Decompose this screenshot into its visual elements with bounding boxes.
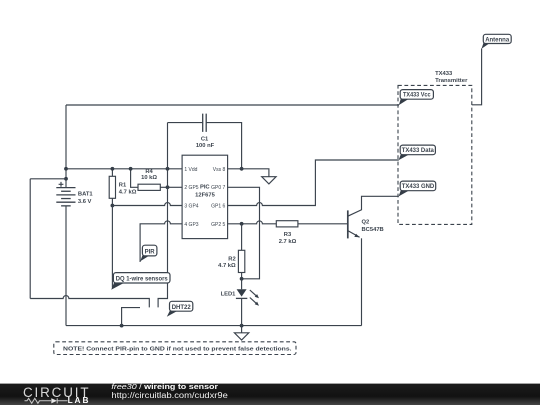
svg-text:C1: C1 <box>201 136 209 142</box>
wire R1 bottom down to DQ sensors <box>111 206 113 288</box>
ground Vss <box>262 177 276 184</box>
capacitor C1 <box>168 114 242 169</box>
svg-text:Vss 8: Vss 8 <box>213 167 226 173</box>
resistor R3 <box>276 221 348 245</box>
svg-text:Antenna: Antenna <box>485 37 510 43</box>
node R1 top junction <box>111 167 115 171</box>
label TX433 Transmitter <box>435 71 468 84</box>
svg-text:4.7 kΩ: 4.7 kΩ <box>119 189 137 195</box>
svg-text:NOTE! Connect PIR-pin to GND i: NOTE! Connect PIR-pin to GND if not used… <box>63 346 292 352</box>
footer bar <box>0 384 540 405</box>
svg-text:BAT1: BAT1 <box>78 191 93 197</box>
logo CIRCUIT LAB <box>23 385 90 405</box>
svg-text:TX433 GND: TX433 GND <box>402 184 435 190</box>
svg-text:2 GP5: 2 GP5 <box>184 185 198 191</box>
svg-text:LED1: LED1 <box>221 292 237 298</box>
svg-text:PIC: PIC <box>200 185 210 191</box>
resistor R1 <box>109 169 136 206</box>
svg-text:3.6 V: 3.6 V <box>78 199 92 205</box>
callout TX433 Vcc <box>399 90 434 106</box>
callout Antenna <box>482 34 512 49</box>
svg-text:PIR: PIR <box>145 250 156 256</box>
ground below LED <box>234 326 248 340</box>
svg-text:GP1 6: GP1 6 <box>211 204 225 210</box>
svg-text:2.7 kΩ: 2.7 kΩ <box>279 239 297 245</box>
node LED anode junction <box>240 277 244 281</box>
wire GP3 pin 4 with hop <box>140 221 182 262</box>
node R2 top junction <box>240 222 244 226</box>
svg-text:DQ 1-wire sensors: DQ 1-wire sensors <box>116 277 169 283</box>
svg-text:R2: R2 <box>228 256 235 262</box>
dashed TX433 transmitter box <box>398 85 472 224</box>
node ground rail DHT22 junction <box>120 324 124 328</box>
wire C1 left vertical down to 1-wire stub <box>158 123 167 308</box>
LED LED1 <box>221 279 259 326</box>
wire DHT22 ground stub line C <box>122 308 140 326</box>
wire GP5 pin 2 <box>168 186 183 188</box>
svg-text:GP2 5: GP2 5 <box>211 222 225 228</box>
node battery plus left branch junction <box>64 177 68 181</box>
wire battery plus to left branch <box>30 178 66 180</box>
wire sensor supply line A with hop over battery wire <box>30 296 149 308</box>
svg-text:TX433 Data: TX433 Data <box>402 148 435 154</box>
svg-text:R4: R4 <box>145 169 153 175</box>
wire bottom ground rail <box>66 325 362 327</box>
battery BAT1 <box>56 182 93 206</box>
node R1 bottom GP4 junction <box>111 204 115 208</box>
svg-text:100 nF: 100 nF <box>196 143 215 149</box>
wire top Vcc rail <box>66 104 399 106</box>
wire battery minus down to ground rail <box>65 206 67 326</box>
svg-text:BC547B: BC547B <box>362 227 384 233</box>
wire left vertical battery to rails <box>65 105 67 188</box>
wire GP0 pin 7 to LED node <box>228 187 260 278</box>
svg-text:Q2: Q2 <box>362 220 370 226</box>
transistor Q2 <box>348 196 399 325</box>
node C1 right Vss junction <box>240 167 244 171</box>
callout TX433 GND <box>399 181 436 196</box>
callout TX433 Data <box>399 145 436 160</box>
IC U1 PIC 12F675 <box>182 155 228 238</box>
svg-text:12F675: 12F675 <box>195 193 215 199</box>
svg-text:R1: R1 <box>119 183 127 189</box>
wire left outer branch down <box>29 179 31 299</box>
node ground rail LED junction <box>240 324 244 328</box>
svg-text:Transmitter: Transmitter <box>435 78 468 84</box>
wire GP4 pin 3 with hop <box>112 203 182 206</box>
svg-text:TX433: TX433 <box>435 71 453 77</box>
wire GP1 pin 6 to TX data with hop <box>228 160 399 206</box>
wire antenna <box>472 49 482 105</box>
node R4 left junction <box>129 167 133 171</box>
callout DHT22 <box>167 301 193 317</box>
wire Vdd rail to pin 1 <box>66 168 182 170</box>
callout PIR <box>140 245 157 261</box>
resistor R4 <box>131 169 168 191</box>
svg-text:R3: R3 <box>284 232 292 238</box>
svg-text:http://circuitlab.com/cudxr9e: http://circuitlab.com/cudxr9e <box>111 391 228 400</box>
svg-text:1 Vdd: 1 Vdd <box>184 167 197 173</box>
svg-text:4 GP3: 4 GP3 <box>184 222 198 228</box>
svg-text:DHT22: DHT22 <box>172 305 192 311</box>
svg-text:10 kΩ: 10 kΩ <box>141 175 157 181</box>
node C1 left rail junction <box>166 167 170 171</box>
wire GP2 pin 5 with hop <box>228 221 277 224</box>
callout DQ 1-wire sensors <box>111 273 170 290</box>
node battery plus rail junction <box>64 167 68 171</box>
footer title text <box>111 382 228 400</box>
svg-text:4.7 kΩ: 4.7 kΩ <box>218 263 236 269</box>
svg-text:TX433 Vcc: TX433 Vcc <box>403 93 431 99</box>
resistor R2 <box>218 224 245 279</box>
svg-text:GP0 7: GP0 7 <box>211 185 225 191</box>
node R4 right junction <box>166 185 170 189</box>
note dashed box <box>54 342 296 355</box>
wire Vss pin 8 to ground <box>228 169 269 177</box>
svg-text:LAB: LAB <box>68 395 91 405</box>
svg-text:3 GP4: 3 GP4 <box>184 204 198 210</box>
